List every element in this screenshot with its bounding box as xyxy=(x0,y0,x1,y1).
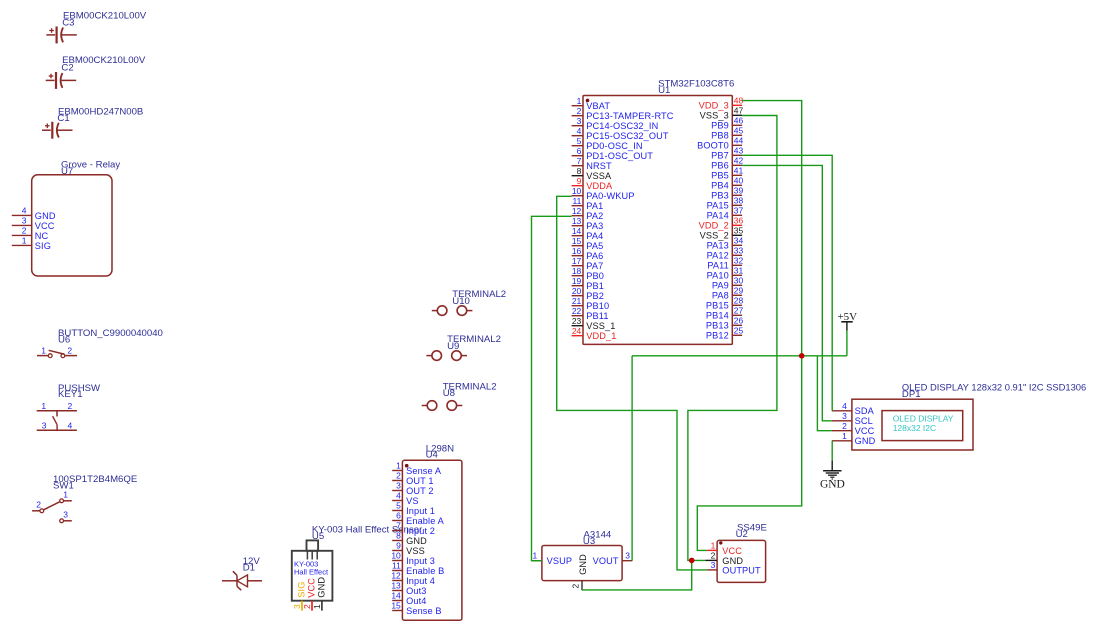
slide switch SW1 (100SP1T2B4M6QE) xyxy=(32,474,137,523)
svg-text:VS: VS xyxy=(406,496,419,506)
svg-text:15: 15 xyxy=(391,601,401,611)
svg-text:28: 28 xyxy=(734,295,744,305)
U7 value label Grove - Relay xyxy=(61,160,120,171)
wire PB7 pin43 to OLED SDA xyxy=(742,155,832,410)
U1 pin 26 PB13 xyxy=(706,315,744,330)
svg-text:40: 40 xyxy=(734,175,744,185)
svg-text:U8: U8 xyxy=(443,388,455,399)
U1 pin 30 PA9 xyxy=(712,275,744,290)
SW1 reference label xyxy=(53,480,74,491)
U3 pin 3 VOUT xyxy=(593,550,633,566)
svg-text:36: 36 xyxy=(734,215,744,225)
U10 value label TERMINAL2 xyxy=(452,289,506,300)
U2 value label SS49E xyxy=(737,523,767,534)
U1 pin 5 PD0-OSC_IN xyxy=(572,136,643,151)
svg-text:SDA: SDA xyxy=(855,406,875,416)
KEY1 actuator xyxy=(53,411,58,431)
KEY1 reference label xyxy=(58,389,83,400)
D1 reference label xyxy=(243,563,255,574)
OLED display DP1 (SSD1306) xyxy=(832,382,1086,450)
U1 pin 18 PB0 xyxy=(572,266,604,281)
svg-text:5: 5 xyxy=(577,136,582,146)
svg-text:PA9: PA9 xyxy=(712,281,729,291)
C2 symbol xyxy=(46,72,76,89)
svg-text:PB12: PB12 xyxy=(706,331,729,341)
svg-text:4: 4 xyxy=(577,126,582,136)
svg-text:BOOT0: BOOT0 xyxy=(697,141,729,151)
screw terminal U9 (TERMINAL2) xyxy=(426,334,501,361)
U1 pin 4 PC15-OSC32_OUT xyxy=(572,126,669,141)
svg-text:35: 35 xyxy=(734,225,744,235)
svg-text:VCC: VCC xyxy=(35,221,55,231)
svg-text:4: 4 xyxy=(842,401,847,411)
screw terminal U10 (TERMINAL2) xyxy=(432,289,506,315)
U1 pin 20 PB2 xyxy=(572,286,604,301)
U3 reference label xyxy=(583,536,595,547)
push button U6 (BUTTON_C9900040040) xyxy=(37,328,163,357)
svg-text:PB3: PB3 xyxy=(711,191,729,201)
U1 pin 17 PA7 xyxy=(572,256,604,271)
U1 pin 10 PA0-WKUP xyxy=(572,186,635,201)
U1 pin 12 PA2 xyxy=(572,206,604,221)
svg-text:19: 19 xyxy=(572,276,582,286)
U1 pin 40 PB4 xyxy=(711,175,743,190)
svg-text:VOUT: VOUT xyxy=(593,556,619,566)
C2 reference label xyxy=(61,62,73,73)
svg-text:C3: C3 xyxy=(62,17,74,28)
svg-text:VDD_2: VDD_2 xyxy=(699,221,729,231)
U1 pin 2 PC13-TAMPER-RTC xyxy=(572,106,674,121)
svg-text:1: 1 xyxy=(41,401,46,411)
svg-text:PA6: PA6 xyxy=(586,251,603,261)
svg-text:1: 1 xyxy=(842,431,847,441)
U5 sensor package xyxy=(307,540,319,559)
U1 reference label xyxy=(658,85,670,96)
U8 value label TERMINAL2 xyxy=(443,381,497,392)
svg-text:VSS_2: VSS_2 xyxy=(700,231,729,241)
svg-text:26: 26 xyxy=(734,315,744,325)
DP1 pin 3 SCL xyxy=(832,411,873,426)
svg-text:KEY1: KEY1 xyxy=(58,389,83,400)
svg-text:PB4: PB4 xyxy=(711,181,729,191)
U3 value label A3144 xyxy=(584,530,612,541)
DP1 outer body xyxy=(852,399,973,450)
U1 pin 28 PB15 xyxy=(706,295,744,310)
svg-text:U2: U2 xyxy=(736,529,748,540)
svg-text:Enable A: Enable A xyxy=(406,516,444,526)
U4 pin 8 GND xyxy=(392,531,427,546)
U4 pin 13 Out3 xyxy=(391,581,426,596)
svg-text:PB15: PB15 xyxy=(706,301,729,311)
U9 terminal 2 xyxy=(452,351,467,361)
U1 pin 21 PB10 xyxy=(572,296,610,311)
U4 pin 5 Input 1 xyxy=(392,501,435,516)
SW1 value label 100SP1T2B4M6QE xyxy=(53,474,137,485)
svg-text:OLED DISPLAY 128x32 0.91" I2C: OLED DISPLAY 128x32 0.91" I2C SSD1306 xyxy=(902,382,1086,393)
svg-text:1: 1 xyxy=(22,236,27,246)
U3 body xyxy=(542,546,622,581)
svg-text:4: 4 xyxy=(396,491,401,501)
U1 pin 13 PA3 xyxy=(572,216,604,231)
U1 pin 42 PB6 xyxy=(711,155,743,170)
ground symbol GND xyxy=(820,461,845,491)
svg-text:8: 8 xyxy=(577,166,582,176)
U1 pin 19 PB1 xyxy=(572,276,604,291)
U4 pin 7 Input 2 xyxy=(392,521,435,536)
U3 pin 2 GND xyxy=(571,554,589,590)
svg-text:16: 16 xyxy=(572,246,582,256)
DP1 screen text OLED DISPLAY xyxy=(893,414,954,424)
U7 body xyxy=(32,175,112,276)
push switch KEY1 (PUSHSW) xyxy=(37,383,101,431)
U4 pin 11 Enable B xyxy=(392,561,444,576)
wire U2 GND to U3 GND xyxy=(582,560,692,590)
DP1 pin 1 GND xyxy=(832,431,876,446)
svg-text:VCC: VCC xyxy=(307,578,317,598)
U1 pin 39 PB3 xyxy=(711,185,743,200)
svg-text:11: 11 xyxy=(392,561,401,571)
svg-text:C2: C2 xyxy=(61,62,73,73)
C3 reference label xyxy=(62,17,74,28)
svg-text:Input 4: Input 4 xyxy=(406,576,435,586)
svg-text:3: 3 xyxy=(577,116,582,126)
wire U3 VOUT up to +5V rail xyxy=(631,356,633,561)
svg-text:VDD_1: VDD_1 xyxy=(586,331,616,341)
svg-text:47: 47 xyxy=(734,105,744,115)
U2 pin 1 VCC xyxy=(707,541,742,556)
svg-text:43: 43 xyxy=(734,145,744,155)
hall sensor U3 (A3144) xyxy=(532,530,633,591)
U1 pin 8 VSSA xyxy=(572,166,612,181)
capacitor C3 xyxy=(46,11,147,44)
svg-text:VDDA: VDDA xyxy=(586,181,613,191)
svg-text:Input 3: Input 3 xyxy=(406,556,435,566)
DP1 pin 4 SDA xyxy=(832,401,875,416)
svg-text:33: 33 xyxy=(734,245,744,255)
svg-text:46: 46 xyxy=(734,115,744,125)
U1 value label STM32F103C8T6 xyxy=(658,79,734,90)
wire VSS_3 pin47 to U2 GND xyxy=(688,116,777,561)
U1 pin 43 PB7 xyxy=(711,145,743,160)
svg-text:1: 1 xyxy=(312,604,322,609)
svg-text:32: 32 xyxy=(734,255,744,265)
U4 pin 14 Out4 xyxy=(391,591,426,606)
svg-text:3: 3 xyxy=(42,421,47,431)
U1 pin 7 NRST xyxy=(572,156,612,171)
svg-text:17: 17 xyxy=(572,256,582,266)
U9 terminal 1 xyxy=(426,351,441,361)
svg-text:27: 27 xyxy=(734,305,744,315)
C3 symbol xyxy=(46,27,77,44)
U1 pin 45 PB8 xyxy=(711,125,743,140)
U4 pin 9 VSS xyxy=(392,541,425,556)
svg-text:23: 23 xyxy=(572,316,582,326)
U1 pin 35 VSS_2 xyxy=(700,225,744,240)
svg-text:5: 5 xyxy=(396,501,401,511)
U1 pin 38 PA15 xyxy=(707,195,744,210)
junction U2 GND node xyxy=(689,558,695,564)
svg-text:PB8: PB8 xyxy=(711,131,729,141)
svg-text:2: 2 xyxy=(842,421,847,431)
svg-text:BUTTON_C9900040040: BUTTON_C9900040040 xyxy=(58,328,163,339)
svg-text:9: 9 xyxy=(577,176,582,186)
svg-text:SIG: SIG xyxy=(297,582,307,598)
U1 pin 27 PB14 xyxy=(706,305,744,320)
svg-text:20: 20 xyxy=(572,286,582,296)
U1 pin 37 PA14 xyxy=(707,205,744,220)
SW1 pin 3 xyxy=(60,510,72,523)
U1 pin 32 PA11 xyxy=(707,255,743,270)
U1 pin 14 PA4 xyxy=(572,226,604,241)
svg-text:30: 30 xyxy=(734,275,744,285)
svg-text:Input 1: Input 1 xyxy=(406,506,435,516)
DP1 screen rectangle xyxy=(882,411,963,441)
svg-text:10: 10 xyxy=(572,186,582,196)
U4 pin 1 marker dot xyxy=(405,464,409,468)
U1 pin 29 PA8 xyxy=(712,285,744,300)
svg-text:22: 22 xyxy=(572,306,582,316)
svg-text:VSS: VSS xyxy=(406,546,425,556)
svg-text:38: 38 xyxy=(734,195,744,205)
svg-text:Sense A: Sense A xyxy=(406,466,442,476)
motor driver U4 (L298N) xyxy=(391,444,462,620)
U10 reference label xyxy=(452,296,470,307)
DP1 value label OLED DISPLAY 128x32 0.91&quot; I2C SSD1306 xyxy=(902,382,1086,393)
U9 reference label xyxy=(447,341,459,352)
wire +5V rail to OLED VCC xyxy=(817,356,832,431)
svg-text:8: 8 xyxy=(396,531,401,541)
svg-text:21: 21 xyxy=(572,296,582,306)
svg-text:D1: D1 xyxy=(243,563,255,574)
U7 pin 1 SIG xyxy=(12,236,51,251)
U4 pin 4 VS xyxy=(392,491,418,506)
svg-text:3: 3 xyxy=(22,216,27,226)
svg-text:GND: GND xyxy=(722,556,743,566)
KEY1 bottom rail pins 3-4 xyxy=(37,421,77,431)
U1 pin 9 VDDA xyxy=(572,176,613,191)
svg-text:14: 14 xyxy=(572,226,582,236)
svg-text:GND: GND xyxy=(578,554,588,575)
C1 value label EBM00HD247N00B xyxy=(58,106,143,117)
svg-text:PA13: PA13 xyxy=(707,241,729,251)
U1 pin 11 PA1 xyxy=(572,196,604,211)
DP1 pin 2 VCC xyxy=(832,421,875,436)
D1 value label 12V xyxy=(243,556,261,567)
U1 pin 41 PB5 xyxy=(711,165,743,180)
svg-text:OUTPUT: OUTPUT xyxy=(722,565,761,575)
svg-text:GND: GND xyxy=(855,436,876,446)
D1 symbol xyxy=(222,571,262,590)
svg-text:3: 3 xyxy=(292,604,302,609)
svg-text:PB11: PB11 xyxy=(586,311,608,321)
U6 right contact xyxy=(61,354,65,358)
svg-text:PB2: PB2 xyxy=(586,291,604,301)
svg-text:1: 1 xyxy=(711,541,716,551)
junction +5V rail node xyxy=(799,353,805,359)
svg-text:41: 41 xyxy=(734,165,744,175)
U5 pin 1 GND xyxy=(312,577,327,611)
svg-text:VSUP: VSUP xyxy=(547,556,573,566)
U2 body xyxy=(717,540,766,582)
svg-text:VSS_3: VSS_3 xyxy=(700,111,729,121)
svg-text:PD1-OSC_OUT: PD1-OSC_OUT xyxy=(586,151,653,161)
wire PA2 pin12 to U3 VSUP xyxy=(532,216,572,560)
svg-text:12: 12 xyxy=(391,571,401,581)
U1 pin 47 VSS_3 xyxy=(700,105,744,120)
C2 value label EBM00CK210L00V xyxy=(62,55,146,66)
U6 reference label xyxy=(58,335,70,346)
svg-text:2: 2 xyxy=(396,471,401,481)
U4 reference label xyxy=(426,450,439,461)
U5 value label KY-003 Hall Effect Sensor xyxy=(312,524,423,535)
svg-text:3: 3 xyxy=(842,411,847,421)
svg-text:10: 10 xyxy=(391,551,401,561)
svg-text:U6: U6 xyxy=(58,335,70,346)
svg-text:U1: U1 xyxy=(658,85,670,96)
U5 inner label KY-003 xyxy=(294,560,318,569)
U6 pin 1 xyxy=(37,346,48,356)
U1 pin 48 VDD_3 xyxy=(699,95,744,110)
U4 pin 12 Input 4 xyxy=(391,571,435,586)
svg-text:PA5: PA5 xyxy=(586,241,603,251)
U1 pin 44 BOOT0 xyxy=(697,135,743,150)
svg-text:Enable B: Enable B xyxy=(406,566,444,576)
svg-text:4: 4 xyxy=(68,421,73,431)
C1 reference label xyxy=(57,113,69,124)
U10 terminal 1 xyxy=(432,306,447,316)
svg-text:2: 2 xyxy=(577,106,582,116)
SW1 lever xyxy=(43,502,60,510)
svg-text:29: 29 xyxy=(734,285,744,295)
U1 pin 36 VDD_2 xyxy=(699,215,744,230)
svg-text:7: 7 xyxy=(396,521,401,531)
U1 pin 31 PA10 xyxy=(707,265,744,280)
U1 pin 23 VSS_1 xyxy=(572,316,616,331)
svg-text:9: 9 xyxy=(396,541,401,551)
svg-text:PB13: PB13 xyxy=(706,321,729,331)
svg-text:PA7: PA7 xyxy=(586,261,603,271)
svg-text:U4: U4 xyxy=(426,450,439,461)
U4 pin 10 Input 3 xyxy=(391,551,435,566)
svg-text:PA0-WKUP: PA0-WKUP xyxy=(586,191,634,201)
svg-text:Out3: Out3 xyxy=(406,586,426,596)
U1 pin 33 PA12 xyxy=(707,245,744,260)
U2 pin 3 OUTPUT xyxy=(707,560,761,575)
U8 reference label xyxy=(443,388,455,399)
svg-text:2: 2 xyxy=(68,401,73,411)
SW1 pin 2 xyxy=(32,500,44,513)
U1 pin 15 PA5 xyxy=(572,236,604,251)
U4 pin 6 Enable A xyxy=(392,511,444,526)
svg-text:PA4: PA4 xyxy=(586,231,603,241)
U1 pin 16 PA6 xyxy=(572,246,604,261)
svg-text:1: 1 xyxy=(577,96,582,106)
U3 pin 1 VSUP xyxy=(532,550,572,566)
svg-text:15: 15 xyxy=(572,236,582,246)
capacitor C2 xyxy=(46,55,146,89)
SW1 pin 1 xyxy=(60,490,72,503)
svg-text:42: 42 xyxy=(734,155,744,165)
wire PA0-WKUP pin10 to U2 OUTPUT xyxy=(557,196,707,570)
U1 pin 25 PB12 xyxy=(706,325,744,340)
svg-text:NC: NC xyxy=(35,231,49,241)
svg-text:OUT 1: OUT 1 xyxy=(406,476,434,486)
svg-text:2: 2 xyxy=(67,346,72,356)
KEY1 top rail pins 1-2 xyxy=(37,401,77,411)
svg-text:128x32 I2C: 128x32 I2C xyxy=(893,423,936,433)
svg-text:24: 24 xyxy=(572,326,582,336)
svg-text:PB5: PB5 xyxy=(711,171,729,181)
svg-text:1: 1 xyxy=(63,490,68,500)
svg-text:44: 44 xyxy=(734,135,744,145)
U9 value label TERMINAL2 xyxy=(447,334,501,345)
wire +5V horizontal rail xyxy=(632,355,847,357)
U6 left contact xyxy=(48,354,52,358)
U5 body xyxy=(292,551,333,601)
wire VDD_3 pin48 to +5V rail xyxy=(742,101,801,356)
relay module U7 (Grove - Relay) xyxy=(12,160,121,276)
U1 pin 34 PA13 xyxy=(707,235,744,250)
U8 terminal 1 xyxy=(422,401,437,411)
svg-text:VCC: VCC xyxy=(722,546,742,556)
svg-text:Hall Effect: Hall Effect xyxy=(294,567,329,576)
svg-text:PB0: PB0 xyxy=(586,271,604,281)
U1 pin 24 VDD_1 xyxy=(572,326,617,341)
DP1 reference label xyxy=(902,389,921,400)
svg-text:PA12: PA12 xyxy=(707,251,729,261)
svg-text:3: 3 xyxy=(625,550,630,560)
svg-text:39: 39 xyxy=(734,185,744,195)
U1 pin 3 PC14-OSC32_IN xyxy=(572,116,659,131)
svg-text:1: 1 xyxy=(396,461,401,471)
svg-text:PA8: PA8 xyxy=(712,291,729,301)
svg-text:13: 13 xyxy=(572,216,582,226)
svg-text:12: 12 xyxy=(572,206,582,216)
svg-text:PB9: PB9 xyxy=(711,121,729,131)
svg-text:PC15-OSC32_OUT: PC15-OSC32_OUT xyxy=(586,131,669,141)
svg-text:2: 2 xyxy=(571,584,581,589)
screw terminal U8 (TERMINAL2) xyxy=(422,381,497,410)
svg-text:PD0-OSC_IN: PD0-OSC_IN xyxy=(586,141,642,151)
svg-text:PC14-OSC32_IN: PC14-OSC32_IN xyxy=(586,121,658,131)
svg-text:45: 45 xyxy=(734,125,744,135)
U4 body xyxy=(402,460,462,620)
wire +5V rail down to U2 VCC xyxy=(697,356,801,551)
svg-text:OUT 2: OUT 2 xyxy=(406,486,434,496)
svg-text:PB1: PB1 xyxy=(586,281,604,291)
svg-text:GND: GND xyxy=(820,479,845,491)
U2 reference label xyxy=(736,529,748,540)
svg-text:14: 14 xyxy=(391,591,401,601)
svg-text:+5V: +5V xyxy=(837,311,857,323)
capacitor C1 xyxy=(42,106,143,138)
svg-text:GND: GND xyxy=(35,211,56,221)
svg-text:VCC: VCC xyxy=(855,426,875,436)
power symbol +5V xyxy=(837,311,857,356)
svg-text:Sense B: Sense B xyxy=(406,606,442,616)
svg-text:2: 2 xyxy=(711,551,716,561)
svg-text:3: 3 xyxy=(711,560,716,570)
U1 pin 1 marker dot xyxy=(586,99,590,103)
U5 reference label xyxy=(312,531,324,542)
svg-text:PA10: PA10 xyxy=(707,271,729,281)
U1 body xyxy=(583,96,732,345)
U5 pin 2 VCC xyxy=(302,578,317,611)
svg-text:Out4: Out4 xyxy=(406,596,426,606)
U4 pin 15 Sense B xyxy=(391,601,441,616)
svg-text:1: 1 xyxy=(532,550,537,560)
svg-text:3: 3 xyxy=(63,510,68,520)
